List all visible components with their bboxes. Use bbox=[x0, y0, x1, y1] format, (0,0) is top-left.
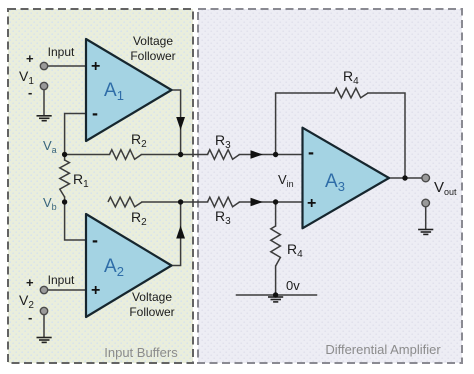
arrow right on row B bbox=[251, 198, 264, 206]
wire R2 bottom to R3 bottom bbox=[142, 201, 208, 203]
svg-text:-: - bbox=[92, 103, 98, 123]
svg-text:-: - bbox=[28, 310, 32, 325]
svg-text:+: + bbox=[91, 58, 100, 75]
resistor R3 top bbox=[208, 150, 240, 160]
wire R4 to 0v rail bbox=[275, 266, 277, 295]
node A2 output junction bbox=[178, 199, 183, 204]
node Vin bottom junction bbox=[273, 199, 278, 204]
svg-text:Input: Input bbox=[48, 273, 75, 287]
arrow right on row A bbox=[251, 150, 264, 158]
resistor R4 to ground bbox=[271, 226, 281, 266]
svg-text:-: - bbox=[28, 85, 32, 100]
resistor R2 bottom bbox=[108, 197, 142, 207]
arrow down on A1 output bbox=[176, 117, 185, 130]
svg-text:Input Buffers: Input Buffers bbox=[104, 345, 178, 360]
svg-text:-: - bbox=[92, 230, 98, 250]
wire V1+ to A1 plus input bbox=[48, 65, 87, 67]
wire Vout ground terminal down bbox=[425, 207, 427, 229]
wire node Vin top up to feedback R4 bbox=[276, 93, 334, 155]
wire R2 top to R3 top bbox=[142, 154, 208, 156]
wire R1 stubs bbox=[64, 155, 66, 203]
node Vb junction bbox=[62, 199, 67, 204]
wire R3 top to A3 minus input bbox=[240, 154, 304, 156]
resistor R2 top bbox=[110, 150, 142, 160]
input buffers region box bbox=[8, 9, 193, 363]
wire Vb to A2 minus feedback bbox=[65, 202, 87, 240]
wire V1- to ground bbox=[43, 90, 45, 116]
wire A2 output up to row B bbox=[171, 202, 181, 266]
ground V1 bbox=[37, 116, 52, 121]
terminal V2 minus bbox=[40, 307, 47, 314]
wire V2+ to A2 plus input bbox=[48, 289, 87, 291]
wire V2- to ground bbox=[43, 315, 45, 337]
op-amp A1 bbox=[86, 39, 172, 141]
svg-text:+: + bbox=[307, 195, 316, 212]
wire A1 minus feedback to Va bbox=[65, 114, 87, 155]
svg-text:Voltage: Voltage bbox=[132, 290, 172, 304]
terminal V1 plus bbox=[40, 62, 47, 69]
op-amp A3 bbox=[303, 128, 390, 229]
wire node Vin bottom down to R4 bbox=[275, 202, 277, 226]
terminal Vout bbox=[422, 174, 430, 182]
wire 0v rail bbox=[237, 294, 317, 296]
resistor R3 bottom bbox=[208, 197, 240, 207]
wire R3 bottom to A3 plus input bbox=[240, 201, 304, 203]
ground 0v bbox=[268, 297, 283, 302]
ground Vout bbox=[418, 230, 433, 235]
terminal Vout ground side bbox=[422, 199, 430, 207]
node 0v junction bbox=[273, 292, 278, 297]
terminal V2 plus bbox=[40, 286, 47, 293]
svg-text:0v: 0v bbox=[286, 278, 300, 293]
node Vin top junction bbox=[273, 152, 278, 157]
wire Va to R2 top bbox=[65, 154, 110, 156]
differential amplifier region box bbox=[198, 9, 462, 363]
svg-text:Follower: Follower bbox=[129, 305, 174, 319]
wire A3 output to Vout terminal bbox=[388, 177, 421, 179]
node Va junction bbox=[62, 152, 67, 157]
resistor R1 bbox=[60, 160, 70, 197]
node A3 output junction bbox=[402, 175, 407, 180]
svg-text:-: - bbox=[308, 142, 314, 162]
svg-text:+: + bbox=[26, 275, 34, 290]
op-amp A2 bbox=[86, 214, 172, 317]
svg-text:Follower: Follower bbox=[130, 49, 175, 63]
svg-text:Input: Input bbox=[48, 45, 75, 59]
arrow up on A2 output bbox=[176, 226, 185, 239]
terminal V1 minus bbox=[40, 82, 47, 89]
resistor R4 feedback bbox=[334, 88, 368, 98]
svg-text:+: + bbox=[26, 51, 34, 66]
wire A1 output down to row A bbox=[171, 90, 181, 155]
wire feedback R4 to output node bbox=[368, 93, 405, 178]
svg-text:Differential Amplifier: Differential Amplifier bbox=[325, 342, 441, 357]
svg-text:+: + bbox=[91, 282, 100, 299]
ground V2 bbox=[37, 338, 52, 343]
svg-text:Voltage: Voltage bbox=[133, 34, 173, 48]
node A1 output junction bbox=[178, 152, 183, 157]
